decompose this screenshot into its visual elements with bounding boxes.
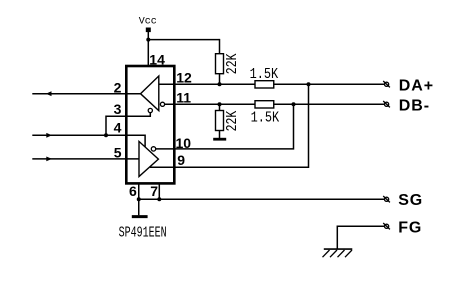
receiver inverting input bubble (pin 11): [160, 102, 164, 106]
arrow on pin 2 wire pointing left: [46, 91, 52, 96]
svg-text:9: 9: [177, 152, 185, 168]
svg-text:5: 5: [114, 145, 122, 161]
wire pin 5 (DI input): [32, 158, 139, 160]
svg-text:14: 14: [149, 52, 165, 68]
wire pin 3 (RE enable) L-shape to pin 4 line and to enable bubble: [106, 113, 150, 136]
svg-text:SP491EEN: SP491EEN: [119, 225, 167, 241]
wire pin 4 (DE enable): [32, 135, 145, 147]
wire FG terminal to earth ground: [337, 226, 384, 249]
svg-text:DB-: DB-: [399, 98, 430, 115]
IC U1 SP491EEN body: [126, 66, 174, 183]
node pin 7 junction: [157, 197, 161, 201]
wire pin 11 (B) from bubble to resistor R4: [165, 103, 255, 105]
node pin3/pin4 junction: [104, 133, 108, 137]
svg-text:22K: 22K: [224, 53, 241, 74]
svg-text:3: 3: [114, 101, 122, 117]
node Vcc junction: [146, 38, 150, 42]
resistor R4 1.5K body: [255, 101, 274, 108]
ground bar under R2: [213, 138, 226, 141]
wire pin 6 stub: [138, 183, 140, 199]
op-amp U1A receiver triangle: [141, 76, 159, 111]
Vcc terminal square: [146, 28, 151, 33]
resistor R2 22K body: [216, 111, 224, 131]
svg-text:4: 4: [114, 120, 122, 136]
earth ground hatch 2: [330, 250, 337, 257]
wire pin 9 (Y) from driver right then up to DA+ line: [150, 84, 309, 167]
svg-text:11: 11: [176, 90, 191, 106]
svg-text:6: 6: [129, 183, 137, 199]
wire pin 7 stub: [158, 183, 160, 199]
wire pin 10 (Z) from driver bubble right then up to DB- line: [156, 104, 294, 149]
wire SG line: [139, 198, 385, 200]
wire pin 6 junction down to ground: [138, 199, 140, 215]
node R2 / pin11 junction: [218, 102, 222, 106]
arrow on pin 4 wire pointing right: [46, 133, 52, 138]
node pin 6 junction: [137, 197, 141, 201]
op-amp U1B driver triangle: [139, 141, 158, 176]
wire R3 to DA+ terminal: [274, 83, 385, 85]
node pin10 riser / DB- line junction: [292, 102, 296, 106]
terminal SG circle: [383, 196, 390, 202]
svg-text:7: 7: [150, 183, 158, 199]
svg-text:SG: SG: [398, 192, 423, 209]
earth ground bar: [324, 248, 353, 250]
ground bar under pin 6: [132, 215, 148, 218]
earth ground hatch 3: [338, 250, 345, 257]
terminal DA+ circle: [383, 81, 390, 87]
terminal FG circle: [383, 223, 390, 229]
receiver enable bubble (pin 3): [148, 108, 152, 112]
earth ground hatch 1: [323, 250, 330, 257]
svg-text:FG: FG: [398, 219, 422, 236]
arrow on pin 5 wire pointing right: [46, 157, 52, 162]
svg-text:DA+: DA+: [399, 78, 434, 95]
wire pin 12 (A) from receiver to resistor R3: [159, 83, 255, 85]
svg-text:1.5K: 1.5K: [251, 110, 280, 126]
wire Vcc junction to right: [148, 39, 219, 41]
svg-text:2: 2: [114, 80, 122, 96]
svg-text:10: 10: [176, 135, 192, 151]
node pin9 riser / DA+ line junction: [307, 82, 311, 86]
terminal DB- circle: [383, 101, 390, 107]
earth ground hatch 4: [345, 250, 352, 257]
svg-text:12: 12: [176, 70, 192, 86]
svg-text:22K: 22K: [224, 111, 241, 132]
wire R4 to DB- terminal: [274, 103, 385, 105]
wire Vcc square down to pin 14: [147, 32, 149, 67]
resistor R1 22K body: [216, 54, 224, 74]
driver inverting output bubble (pin 10): [151, 147, 155, 151]
svg-text:Vcc: Vcc: [139, 17, 157, 28]
wire pin 11 junction down to resistor R2: [219, 104, 221, 110]
wire R2 bottom to ground: [219, 131, 221, 139]
node R1 / pin12 junction: [218, 82, 222, 86]
wire down to resistor R1 top: [219, 39, 221, 54]
wire pin 2 (RO output): [32, 93, 140, 95]
wire R1 bottom to pin 12 line: [219, 74, 221, 85]
resistor R3 1.5K body: [255, 81, 274, 88]
svg-text:1.5K: 1.5K: [250, 66, 279, 82]
